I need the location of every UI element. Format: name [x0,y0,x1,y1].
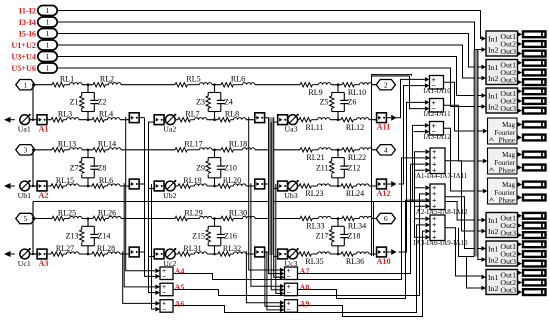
svg-text:Z15: Z15 [192,232,205,241]
svg-text:A11: A11 [377,123,391,132]
wire drop boundary1 row3 to A6 in1 [123,251,156,303]
measurement block (segment 2 start) [154,249,164,259]
svg-text:Z9: Z9 [196,163,205,172]
svg-text:RL28: RL28 [97,244,115,253]
wire riser to A9 in2 [265,252,280,306]
scope display block [517,98,545,105]
svg-text:RL34: RL34 [348,222,366,231]
svg-text:Phase: Phase [499,167,515,175]
scope display block [517,151,545,158]
svg-text:A5: A5 [175,283,185,292]
measurement block (segment 3 start) [278,249,288,259]
subsystem block In1/In2-Out1/Out2/Out3 #5 [481,241,517,266]
wire drop boundary2 row1 to A7 in1 [249,117,280,270]
svg-text:1: 1 [46,18,50,27]
series RL element RL18 [221,140,255,152]
series RL element RL5 [175,75,212,87]
svg-text:U3+U4: U3+U4 [11,52,36,61]
summing block A8 [280,283,310,297]
output port arrow (left) [4,117,15,123]
svg-text:A4: A4 [175,267,185,276]
summing block IA3-IA6-IA9-IA10 [413,214,468,247]
svg-text:RL25: RL25 [58,208,76,217]
svg-text:RL13: RL13 [58,140,76,149]
svg-text:1: 1 [46,64,50,73]
voltage source Ua2 [163,114,176,134]
svg-text:−: − [162,274,166,281]
series RL element RL23 [299,184,330,198]
svg-text:IA3-IA6-IA9-IA10: IA3-IA6-IA9-IA10 [413,239,468,247]
svg-text:I5-I6: I5-I6 [19,29,36,38]
svg-text:RL6: RL6 [99,176,113,185]
node junction [213,149,216,152]
measurement block A12 [376,179,396,198]
wire from bus [148,121,155,123]
node junction [337,83,340,86]
measurement block (segment 3 start) [278,181,288,191]
scope display block [517,31,545,38]
svg-text:A2: A2 [38,191,48,200]
wire riser to A9 in3 [267,252,280,310]
scope display block [517,289,545,296]
output port oval 5 (U3+U4) [11,52,57,62]
wire sum IA3-IA6-IA9-IA10 output to In block6 [445,228,481,276]
svg-text:Mag: Mag [502,181,515,189]
svg-text:I1-I2: I1-I2 [19,6,36,15]
wire A12 signal to IA1-IA10 minus [399,86,425,184]
wire bottom line [47,185,378,187]
svg-text:4: 4 [384,146,388,155]
wire left rail [32,85,34,120]
series RL element RL20 [218,176,246,188]
svg-text:I3-I4: I3-I4 [19,18,36,27]
svg-text:Z14: Z14 [98,232,111,241]
wire feed to IA3-IA12 minus [414,131,425,133]
svg-text:Phase: Phase [499,197,515,205]
node rail-top [32,149,34,151]
series RL element RL29 [175,208,212,220]
svg-text:Z17: Z17 [316,232,329,241]
wire feed to IA3-IA12 [413,125,425,201]
wire from bus [148,255,155,257]
wire to bus [265,183,269,185]
scope display block [517,251,545,258]
node rail-top [32,217,34,219]
node junction [87,253,90,256]
svg-text:1: 1 [46,29,50,38]
svg-text:RL21: RL21 [306,153,324,162]
svg-text:A3: A3 [38,259,48,268]
svg-text:RL8: RL8 [225,110,239,119]
svg-text:A1: A1 [38,125,48,134]
series RL element RL1 [52,75,82,87]
series RL element RL2 [93,75,121,87]
series RL element RL6 [221,75,255,87]
wire A11 signal to IA1-IA10 [396,79,425,117]
wire drop boundary1 row1 to A4 in1 [126,117,156,271]
wire from bus [274,187,279,189]
node junction [337,253,340,256]
wire A9 output to IA3-IA6-IA9-IA10 [298,231,425,316]
svg-text:Z10: Z10 [224,163,237,172]
svg-text:RL6: RL6 [231,75,245,84]
scope display block [517,121,545,128]
node rail-bottom [32,253,34,255]
series RL element RL6 [92,176,120,188]
goto tag hexagon 4 [376,145,395,155]
svg-text:In1: In1 [488,91,498,100]
bus band gray fill [269,117,273,255]
series RL element RL12 [341,118,369,132]
output port oval 3 (I5-I6) [19,29,57,39]
wire sum IA1-IA4-IA7-IA11 output to In block4 [445,161,481,231]
series RL element RL33 [300,216,331,230]
wire band mid2 to A8 in3 [276,184,280,293]
svg-text:1: 1 [46,41,50,50]
svg-text:Z2: Z2 [98,98,107,107]
series RL element RL14 [93,140,121,152]
svg-text:RL23: RL23 [305,189,323,198]
svg-text:In2: In2 [488,45,498,54]
node junction [213,217,216,220]
scope display block [517,134,545,141]
wire vertical bus x=148 [149,122,156,293]
measurement block (segment 2 end) [255,247,265,257]
svg-text:RL7: RL7 [185,110,199,119]
scope display block [517,88,545,95]
wire A6 output to IA3-IA6-IA9-IA10 [173,225,425,313]
wire stubs into 4-input summing blocks [414,152,425,238]
node rail-bottom [32,185,34,187]
svg-text:1: 1 [24,80,28,89]
wire band edge right to A7 in3 [274,117,280,277]
shunt impedance Z9 parallel Z10 [196,150,237,186]
wire from oval port 6 to In block [57,68,481,107]
scope display block [517,269,545,276]
output port oval 6 (U5+U6) [11,63,57,73]
output port oval 4 (U1+U2) [11,40,57,50]
svg-text:A12: A12 [376,189,390,198]
series RL element RL22 [342,148,372,162]
node junction [87,83,90,86]
svg-text:A9: A9 [300,300,310,309]
svg-text:Uc1: Uc1 [18,259,31,268]
wire top line [35,149,377,151]
node junction [87,185,90,188]
svg-text:Z7: Z7 [70,163,79,172]
summing block A6 [155,300,184,314]
summing block IA1-IA10 [423,75,451,95]
wire A8 output to IA2-IA5-IA8-IA12 [298,200,425,298]
wire A5 output to IA2-IA5-IA8-IA12 [173,194,425,296]
svg-text:RL18: RL18 [229,140,247,149]
measurement block A1 [37,115,48,134]
svg-text:RL3: RL3 [58,110,72,119]
summing block IA2-IA11 [423,98,451,118]
svg-text:−: − [162,290,166,297]
svg-text:Out3: Out3 [500,229,516,238]
wire from bus [148,187,155,189]
node junction [213,253,216,256]
measurement block (segment 1 end) [129,113,139,123]
svg-text:Mag: Mag [502,151,515,159]
node junction [213,185,216,188]
wire rail extension up to long bus [32,202,34,219]
voltage source Ub3 [284,180,299,200]
svg-text:RL20: RL20 [223,176,241,185]
scope display block [517,194,545,201]
wire drop boundary1 row2 to A5 in1 [124,183,155,287]
from tag hexagon 5 [16,213,35,223]
series RL element RL34 [342,216,372,230]
series RL element RL10 [342,83,372,97]
scope display block [517,41,545,48]
svg-text:Z5: Z5 [320,98,329,107]
svg-text:5: 5 [24,214,28,223]
voltage source Ub1 [18,180,32,200]
wire vertical bus x=144.5 [145,118,156,277]
svg-text:Z8: Z8 [98,163,107,172]
svg-text:Z13: Z13 [66,232,79,241]
wire top line [35,218,377,220]
wire sum IA2-IA11 output to Fourier2 [444,105,483,161]
measurement block A11 [377,113,397,132]
scope display block [517,241,545,248]
Fourier analysis block (Mag/Phase) #3 [483,178,517,205]
svg-text:Out3: Out3 [500,257,516,266]
shunt impedance Z13 parallel Z14 [66,219,111,255]
svg-text:Out3: Out3 [500,47,516,56]
svg-text:RL15: RL15 [56,176,74,185]
wire top line [35,84,377,86]
measurement block (segment 1 end) [129,179,139,189]
from tag hexagon 3 [16,145,35,155]
svg-text:RL17: RL17 [184,140,202,149]
svg-text:RL10: RL10 [348,88,366,97]
wire bottom line [47,253,378,255]
output port arrow (left) [4,183,15,189]
voltage source Uc3 [285,248,299,268]
svg-text:In2: In2 [488,74,498,83]
scope display block [517,212,545,219]
svg-text:RL5: RL5 [186,75,200,84]
wire left rail [32,150,34,186]
wire to bus [139,251,144,253]
wire In2 of block6 [467,257,482,289]
series RL element RL13 [52,140,82,152]
svg-text:Z3: Z3 [196,98,205,107]
svg-text:Z1: Z1 [70,98,79,107]
Fourier analysis block (Mag/Phase) #1 [483,118,517,145]
series RL element RL28 [92,244,120,256]
svg-text:−: − [286,290,290,297]
node rail-bottom [32,119,34,121]
svg-text:Z11: Z11 [316,163,329,172]
svg-text:RL35: RL35 [305,257,323,266]
node junction [213,118,216,121]
voltage source Ua3 [285,114,299,134]
svg-text:RL24: RL24 [346,189,364,198]
wire band edge left to A7 in2 [269,117,280,273]
wire feed to IA2-IA11 minus [410,76,425,109]
shunt impedance Z11 parallel Z12 [316,150,360,186]
summing block IA2-IA5-IA8-IA12 [413,183,468,216]
wire from oval port 4 to In block [57,45,481,78]
series RL element RL24 [341,184,369,198]
wire vertical bus x=151.5 [152,184,156,309]
svg-text:RL19: RL19 [183,176,201,185]
wire A4 output to IA1-IA4-IA7-IA11 [173,158,425,280]
svg-text:In1: In1 [488,244,498,253]
svg-text:IA2-IA11: IA2-IA11 [423,110,451,118]
summing block A4 [155,267,184,281]
series RL element RL26 [93,208,121,220]
wire band right edge [473,50,475,257]
summing block A5 [155,283,184,297]
svg-text:Ua2: Ua2 [163,125,176,134]
wire riser x=373.7 [373,202,375,257]
node junction [337,149,340,152]
svg-text:RL26: RL26 [98,208,116,217]
shunt impedance Z15 parallel Z16 [192,219,237,255]
summing block A9 [280,300,310,314]
svg-text:Z6: Z6 [348,98,357,107]
scope display block [517,232,545,239]
wire drop boundary2 row2 to A8 in1 [251,183,280,286]
svg-text:RL36: RL36 [346,257,364,266]
svg-text:IA1-IA4-IA7-IA11: IA1-IA4-IA7-IA11 [414,172,468,180]
wire riser x=371 [371,76,373,256]
svg-text:In1: In1 [488,34,498,43]
svg-text:In2: In2 [488,255,498,264]
wire sum IA3-IA12 output to Fourier3 [444,128,483,191]
svg-text:Phase: Phase [499,137,515,145]
scope display block [517,79,545,86]
svg-text:In2: In2 [488,227,498,236]
svg-text:RL29: RL29 [184,208,202,217]
node junction [337,185,340,188]
series RL element RL21 [300,148,331,162]
series RL element RL17 [175,140,212,152]
scope display block [517,59,545,66]
goto tag hexagon 6 [376,213,395,223]
scope display block [517,50,545,57]
wire left rail [32,219,34,255]
svg-text:Ub1: Ub1 [18,191,32,200]
node junction [87,118,90,121]
svg-text:Ua3: Ua3 [285,125,298,134]
series RL element RL15 [51,176,79,188]
series RL element RL27 [51,244,79,256]
wire from oval port 2 to In block [57,22,481,50]
svg-text:Z18: Z18 [348,232,361,241]
wire bottom line [47,119,378,121]
wire comb feeder [459,228,475,257]
node junction [337,217,340,220]
svg-text:In1: In1 [488,63,498,72]
wire to bus [265,117,269,119]
series RL element RL8 [218,110,246,122]
subsystem block In1/In2-Out1/Out2/Out3 #6 [481,270,517,295]
svg-text:In1: In1 [488,273,498,282]
measurement block (segment 2 end) [255,113,265,123]
svg-text:RL14: RL14 [98,140,116,149]
measurement block A3 [37,249,48,268]
wire from oval port 3 to In block [57,34,481,68]
output port oval 2 (I3-I4) [19,17,57,27]
wire sum IA2-IA5-IA8-IA12 output to In block5 [445,197,481,249]
Fourier analysis block (Mag/Phase) #2 [483,148,517,175]
svg-text:IA3-IA12: IA3-IA12 [423,133,451,141]
svg-text:A10: A10 [376,257,390,266]
series RL element RL35 [299,252,330,266]
svg-text:RL22: RL22 [348,153,366,162]
shunt impedance Z3 parallel Z4 [196,85,233,120]
node junction [213,83,216,86]
wire [30,119,37,121]
svg-text:RL1: RL1 [60,75,74,84]
measurement block A2 [37,181,48,200]
shunt impedance Z17 parallel Z18 [316,219,361,255]
measurement block (segment 3 start) [278,115,288,125]
svg-text:A8: A8 [300,283,310,292]
svg-text:U1+U2: U1+U2 [11,41,36,50]
measurement block A10 [376,247,396,266]
svg-text:Z12: Z12 [348,163,361,172]
svg-text:Out3: Out3 [500,104,516,113]
wire long bus y=201.5 [33,202,481,221]
series RL element RL9 [300,83,331,97]
svg-text:6: 6 [384,214,388,223]
wire to bus [139,183,144,185]
wire [30,253,37,255]
wire to bus [139,117,144,119]
shunt impedance Z7 parallel Z8 [70,150,107,186]
svg-text:1: 1 [46,6,50,15]
svg-text:A7: A7 [300,267,310,276]
svg-text:1: 1 [46,52,50,61]
shunt impedance Z1 parallel Z2 [70,85,107,120]
series RL element RL36 [341,252,369,266]
svg-text:Z4: Z4 [224,98,233,107]
measurement block (segment 2 start) [154,115,164,125]
subsystem block In1/In2-Out1/Out2/Out3 #2 [481,60,517,85]
series RL element RL11 [299,118,330,132]
wire sum IA1-IA10 output to Fourier1 [444,82,483,131]
svg-text:A6: A6 [175,300,185,309]
scope display block [517,279,545,286]
svg-text:RL27: RL27 [56,244,74,253]
series RL element RL19 [178,176,207,188]
wire band mid to A8 in2 [271,122,280,290]
series RL element RL3 [51,110,79,122]
goto tag hexagon 2 [376,80,395,90]
node rail-top [32,84,34,86]
shunt impedance Z5 parallel Z6 [320,85,357,120]
scope display block [517,260,545,267]
svg-text:IA1-IA10: IA1-IA10 [423,87,451,95]
series RL element RL31 [178,244,207,256]
series RL element RL7 [178,110,207,122]
svg-text:−: − [162,307,166,314]
svg-text:RL31: RL31 [183,244,201,253]
wire A10 signal to IA2-IA11 [399,102,425,252]
wire from oval port 1 to In block [57,11,481,39]
voltage source Ua1 [18,114,31,134]
svg-text:RL4: RL4 [99,110,113,119]
voltage source Ub2 [163,180,177,200]
node junction [337,118,340,121]
